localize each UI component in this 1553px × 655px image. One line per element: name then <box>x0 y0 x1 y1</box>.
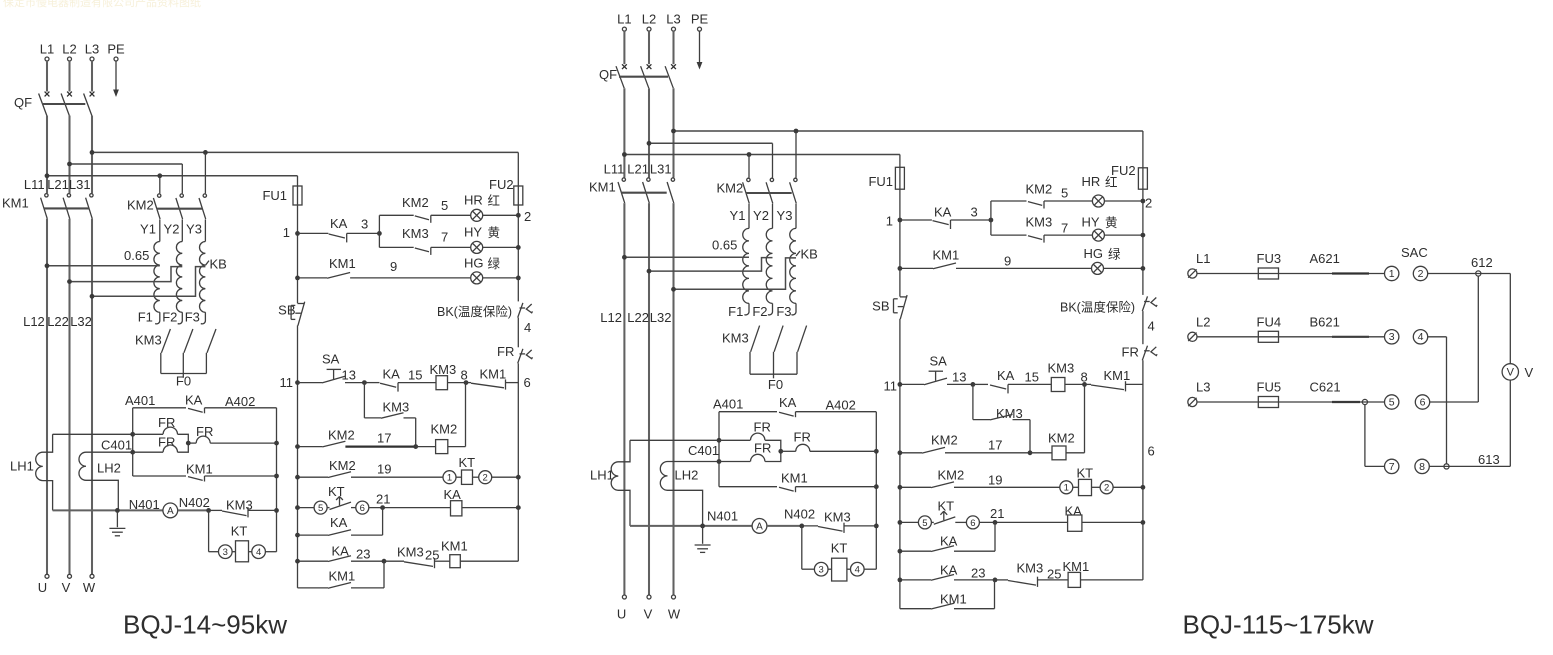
svg-text:Y1: Y1 <box>730 208 746 223</box>
svg-text:0.65: 0.65 <box>712 238 737 253</box>
svg-text:红: 红 <box>1105 175 1118 190</box>
svg-text:4: 4 <box>1418 331 1424 343</box>
svg-text:L2: L2 <box>62 42 76 57</box>
svg-text:F0: F0 <box>768 377 783 392</box>
svg-text:KM2: KM2 <box>329 458 356 473</box>
svg-text:KT: KT <box>831 541 848 556</box>
svg-text:KM3: KM3 <box>1026 215 1053 230</box>
svg-text:FU1: FU1 <box>868 174 893 189</box>
svg-text:3: 3 <box>1389 331 1395 343</box>
svg-text:5: 5 <box>922 518 927 529</box>
svg-text:Y2: Y2 <box>753 208 769 223</box>
svg-text:11: 11 <box>884 379 898 394</box>
svg-text:KM1: KM1 <box>329 569 356 584</box>
svg-text:KT: KT <box>938 499 955 514</box>
svg-text:L1: L1 <box>1196 251 1210 266</box>
svg-text:3: 3 <box>819 565 824 576</box>
svg-text:V: V <box>1507 367 1515 379</box>
svg-text:0.65: 0.65 <box>124 248 149 263</box>
svg-text:6: 6 <box>360 503 365 514</box>
svg-text:N401: N401 <box>707 509 738 524</box>
svg-text:613: 613 <box>1478 452 1500 467</box>
svg-text:17: 17 <box>988 438 1002 453</box>
svg-text:绿: 绿 <box>1108 247 1121 262</box>
svg-text:KM1: KM1 <box>2 196 29 211</box>
svg-text:A: A <box>756 522 763 533</box>
svg-text:L32: L32 <box>650 310 672 325</box>
svg-text:KT: KT <box>328 484 345 499</box>
svg-text:KB: KB <box>210 257 227 272</box>
svg-text:SA: SA <box>322 352 340 367</box>
svg-text:KA: KA <box>934 205 952 220</box>
svg-text:SAC: SAC <box>1401 245 1428 260</box>
svg-text:L12: L12 <box>23 314 45 329</box>
svg-text:KA: KA <box>444 487 462 502</box>
svg-text:L3: L3 <box>1196 380 1210 395</box>
svg-text:21: 21 <box>990 506 1004 521</box>
svg-text:6: 6 <box>524 375 531 390</box>
svg-text:LH2: LH2 <box>675 468 699 483</box>
svg-text:W: W <box>668 607 681 622</box>
svg-text:KM3: KM3 <box>824 510 851 525</box>
svg-text:KA: KA <box>997 368 1015 383</box>
svg-text:KM2: KM2 <box>431 422 458 437</box>
svg-text:5: 5 <box>1061 186 1068 201</box>
svg-text:23: 23 <box>356 547 370 562</box>
svg-text:4: 4 <box>855 565 860 576</box>
svg-text:25: 25 <box>425 548 439 563</box>
svg-text:F1: F1 <box>728 304 743 319</box>
svg-text:A401: A401 <box>713 397 743 412</box>
svg-text:BK(温度保险): BK(温度保险) <box>437 304 512 319</box>
svg-text:KM1: KM1 <box>480 367 507 382</box>
svg-text:2: 2 <box>483 473 488 484</box>
svg-text:KM3: KM3 <box>430 362 457 377</box>
svg-text:KM1: KM1 <box>1104 368 1131 383</box>
svg-text:1: 1 <box>447 473 452 484</box>
svg-text:KA: KA <box>940 534 958 549</box>
svg-text:L1: L1 <box>40 42 54 57</box>
svg-text:KM2: KM2 <box>717 181 744 196</box>
svg-text:LH2: LH2 <box>97 461 121 476</box>
svg-text:KM1: KM1 <box>781 471 808 486</box>
svg-text:Y2: Y2 <box>164 222 180 237</box>
svg-text:QF: QF <box>599 67 617 82</box>
svg-text:F0: F0 <box>176 374 191 389</box>
svg-text:KA: KA <box>330 515 348 530</box>
svg-text:FU3: FU3 <box>1257 251 1282 266</box>
svg-text:L1: L1 <box>617 12 631 27</box>
svg-text:L11: L11 <box>604 162 625 177</box>
svg-text:A: A <box>167 506 174 517</box>
svg-text:B621: B621 <box>1310 314 1340 329</box>
svg-text:KA: KA <box>330 216 348 231</box>
svg-text:PE: PE <box>691 12 709 27</box>
svg-text:FR: FR <box>1122 345 1139 360</box>
svg-text:FU1: FU1 <box>262 188 287 203</box>
svg-text:V: V <box>1525 365 1534 380</box>
svg-text:KA: KA <box>779 395 797 410</box>
svg-text:6: 6 <box>970 518 975 529</box>
svg-text:9: 9 <box>390 259 397 274</box>
svg-text:LH1: LH1 <box>590 468 614 483</box>
svg-text:21: 21 <box>376 492 390 507</box>
svg-text:4: 4 <box>524 320 531 335</box>
svg-text:FU2: FU2 <box>489 177 514 192</box>
svg-text:8: 8 <box>1419 461 1425 473</box>
svg-text:U: U <box>38 580 47 595</box>
svg-text:FR: FR <box>794 430 811 445</box>
svg-text:PE: PE <box>107 42 125 57</box>
svg-text:7: 7 <box>1061 221 1068 236</box>
svg-text:5: 5 <box>441 198 448 213</box>
svg-text:15: 15 <box>408 368 422 383</box>
svg-text:HR: HR <box>464 193 483 208</box>
svg-text:F3: F3 <box>776 304 791 319</box>
svg-text:7: 7 <box>1389 461 1395 473</box>
svg-text:L11: L11 <box>24 177 45 192</box>
svg-text:HG: HG <box>1084 246 1104 261</box>
svg-text:KM1: KM1 <box>329 256 356 271</box>
svg-text:绿: 绿 <box>488 256 501 271</box>
svg-text:F3: F3 <box>185 310 200 325</box>
svg-text:1: 1 <box>283 225 290 240</box>
svg-text:C401: C401 <box>688 443 719 458</box>
svg-text:KM1: KM1 <box>441 539 468 554</box>
svg-text:KM2: KM2 <box>328 428 355 443</box>
svg-text:L31: L31 <box>69 177 91 192</box>
svg-text:A401: A401 <box>125 393 155 408</box>
svg-text:3: 3 <box>971 205 978 220</box>
svg-text:L12: L12 <box>600 310 622 325</box>
svg-text:4: 4 <box>256 547 261 558</box>
svg-text:KM2: KM2 <box>931 433 958 448</box>
svg-text:KM1: KM1 <box>1063 559 1090 574</box>
svg-text:Y3: Y3 <box>777 208 793 223</box>
svg-text:KM2: KM2 <box>1026 182 1053 197</box>
svg-text:FU4: FU4 <box>1257 314 1282 329</box>
svg-text:A402: A402 <box>826 398 856 413</box>
svg-text:L21: L21 <box>47 177 69 192</box>
svg-text:1: 1 <box>1064 483 1069 494</box>
svg-text:11: 11 <box>280 375 294 390</box>
svg-text:F2: F2 <box>752 304 767 319</box>
svg-text:9: 9 <box>1004 254 1011 269</box>
svg-text:3: 3 <box>223 547 228 558</box>
svg-text:8: 8 <box>461 368 468 383</box>
svg-text:17: 17 <box>377 431 391 446</box>
svg-text:L2: L2 <box>642 12 656 27</box>
svg-text:W: W <box>83 580 96 595</box>
svg-text:2: 2 <box>1418 268 1424 280</box>
svg-text:23: 23 <box>971 566 985 581</box>
svg-text:2: 2 <box>524 209 531 224</box>
svg-text:8: 8 <box>1081 370 1088 385</box>
svg-text:KM2: KM2 <box>402 195 429 210</box>
svg-text:KM1: KM1 <box>940 592 967 607</box>
svg-text:F1: F1 <box>138 310 153 325</box>
svg-text:KM3: KM3 <box>1017 561 1044 576</box>
svg-text:5: 5 <box>1389 396 1395 408</box>
svg-text:6: 6 <box>1148 444 1155 459</box>
svg-text:F2: F2 <box>162 310 177 325</box>
svg-text:7: 7 <box>441 230 448 245</box>
svg-text:C621: C621 <box>1310 380 1341 395</box>
svg-text:KM1: KM1 <box>933 248 960 263</box>
svg-text:KM2: KM2 <box>1048 431 1075 446</box>
svg-text:L2: L2 <box>1196 314 1210 329</box>
svg-text:SB: SB <box>872 299 889 314</box>
svg-text:Y1: Y1 <box>140 222 156 237</box>
svg-text:KM3: KM3 <box>1048 361 1075 376</box>
svg-text:HG: HG <box>464 256 484 271</box>
svg-text:L21: L21 <box>627 162 649 177</box>
svg-text:红: 红 <box>488 193 501 208</box>
svg-text:5: 5 <box>318 503 323 514</box>
svg-text:19: 19 <box>988 473 1002 488</box>
svg-text:KM3: KM3 <box>383 400 410 415</box>
svg-text:A621: A621 <box>1310 251 1340 266</box>
svg-text:KT: KT <box>231 524 248 539</box>
svg-text:KM2: KM2 <box>127 198 154 213</box>
svg-text:黄: 黄 <box>488 226 501 240</box>
svg-text:BQJ-115~175kw: BQJ-115~175kw <box>1182 610 1373 640</box>
svg-text:FR: FR <box>754 440 771 455</box>
svg-text:1: 1 <box>886 214 893 229</box>
svg-text:KM1: KM1 <box>589 180 616 195</box>
svg-text:13: 13 <box>952 370 966 385</box>
svg-text:KM3: KM3 <box>397 545 424 560</box>
svg-text:6: 6 <box>1420 396 1426 408</box>
svg-text:HY: HY <box>1082 215 1100 230</box>
svg-text:Y3: Y3 <box>186 222 202 237</box>
svg-text:FR: FR <box>158 435 175 450</box>
svg-text:KM3: KM3 <box>996 406 1023 421</box>
svg-text:KM3: KM3 <box>722 331 749 346</box>
svg-text:FR: FR <box>497 344 514 359</box>
svg-text:1: 1 <box>1389 268 1395 280</box>
svg-text:SA: SA <box>930 354 948 369</box>
svg-text:黄: 黄 <box>1105 216 1118 230</box>
svg-text:KM1: KM1 <box>186 462 213 477</box>
svg-text:V: V <box>644 607 653 622</box>
svg-text:3: 3 <box>361 217 368 232</box>
svg-text:V: V <box>62 580 71 595</box>
svg-text:A402: A402 <box>225 394 255 409</box>
svg-text:15: 15 <box>1025 370 1039 385</box>
svg-text:KM3: KM3 <box>135 333 162 348</box>
svg-text:KA: KA <box>383 367 401 382</box>
svg-text:FR: FR <box>754 420 771 435</box>
svg-text:KA: KA <box>185 393 203 408</box>
svg-text:HR: HR <box>1082 174 1101 189</box>
svg-text:KB: KB <box>801 247 818 262</box>
svg-text:FU5: FU5 <box>1257 380 1282 395</box>
svg-text:QF: QF <box>14 95 32 110</box>
svg-text:13: 13 <box>342 368 356 383</box>
svg-text:L32: L32 <box>70 314 92 329</box>
svg-text:2: 2 <box>1145 196 1152 211</box>
svg-text:N402: N402 <box>784 507 815 522</box>
svg-text:U: U <box>617 607 626 622</box>
svg-text:2: 2 <box>1104 483 1109 494</box>
svg-text:L22: L22 <box>627 310 649 325</box>
svg-text:612: 612 <box>1471 255 1493 270</box>
svg-text:KM3: KM3 <box>402 226 429 241</box>
svg-text:KT: KT <box>1077 466 1094 481</box>
svg-text:L22: L22 <box>47 314 69 329</box>
svg-text:LH1: LH1 <box>10 459 34 474</box>
svg-text:L31: L31 <box>650 162 672 177</box>
svg-text:N402: N402 <box>179 495 210 510</box>
svg-text:L3: L3 <box>666 12 680 27</box>
svg-text:L3: L3 <box>85 42 99 57</box>
svg-text:BK(温度保险): BK(温度保险) <box>1060 300 1135 315</box>
svg-text:4: 4 <box>1148 319 1155 334</box>
svg-text:C401: C401 <box>101 438 132 453</box>
svg-text:BQJ-14~95kw: BQJ-14~95kw <box>123 610 287 640</box>
svg-text:HY: HY <box>464 225 482 240</box>
svg-text:KM2: KM2 <box>938 468 965 483</box>
svg-text:KT: KT <box>459 455 476 470</box>
svg-text:19: 19 <box>377 462 391 477</box>
